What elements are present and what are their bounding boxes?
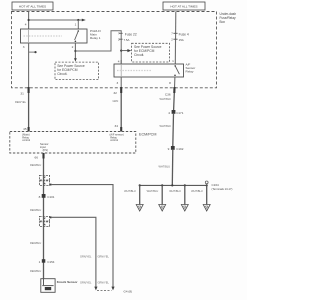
svg-text:8: 8 (39, 195, 41, 199)
svg-text:WHT/BLU: WHT/BLU (159, 165, 171, 169)
svg-text:(Terminals 13-17): (Terminals 13-17) (212, 187, 233, 191)
wire: shield 2 branch to right drop (51, 217, 96, 287)
wire: cavity 31 to ECM pin 45 (28, 93, 30, 132)
relay coil lead (left interior) (28, 29, 30, 43)
junction on pin 2 wire (74, 50, 76, 52)
drop 2 with continuation arrow (161, 185, 163, 204)
svg-text:GRN/YEL: GRN/YEL (98, 254, 110, 258)
connector C101 (42, 194, 46, 198)
svg-text:1: 1 (172, 59, 174, 63)
connector C164 marker (205, 181, 208, 184)
svg-text:GRN/YEL: GRN/YEL (80, 254, 92, 258)
svg-text:C154: C154 (47, 260, 55, 264)
svg-text:3: 3 (23, 45, 25, 49)
svg-text:3: 3 (116, 81, 118, 85)
relay U2: A/F sensor relay box (114, 64, 184, 77)
svg-text:RED/YEL: RED/YEL (15, 100, 27, 104)
svg-text:Relay 1: Relay 1 (90, 36, 101, 40)
relay switch contact bottom (75, 41, 77, 43)
svg-text:WHT/BLU: WHT/BLU (147, 189, 159, 193)
shield drain arrowheads to ground joint (94, 287, 97, 291)
svg-text:Box: Box (220, 20, 226, 24)
svg-text:31: 31 (20, 91, 24, 95)
svg-text:9: 9 (168, 147, 170, 151)
fuse F4 ticks (173, 32, 177, 34)
svg-text:WHT/BLU: WHT/BLU (191, 189, 203, 193)
svg-text:32: 32 (113, 91, 117, 95)
svg-text:WHT/BLU: WHT/BLU (169, 189, 181, 193)
under-dash fuse/relay box dashed enclosure (12, 12, 217, 88)
wire: A/F switch pin8 down (174, 77, 176, 88)
dashed joint line (97, 289, 112, 291)
svg-text:34: 34 (115, 124, 119, 128)
shield connector pair 1 (39, 175, 51, 185)
wire: cavity 32 to ECM pin 34 (120, 93, 122, 132)
svg-text:C192: C192 (176, 147, 184, 151)
svg-text:Fuse 22: Fuse 22 (125, 33, 137, 37)
svg-text:WHT/BLK: WHT/BLK (160, 97, 172, 101)
under-dash fuse/relay box name (220, 12, 237, 24)
wire: fuse22 leg into pin 4 (120, 60, 122, 64)
note box 1: see power source (55, 62, 99, 80)
node: junction dot pin 1 drop (77, 19, 79, 21)
continuation arrow at bus end (82, 19, 86, 22)
svg-text:15A: 15A (179, 38, 184, 42)
svg-text:66: 66 (35, 155, 39, 159)
relay coil (faint) (24, 35, 63, 37)
svg-text:GRN/YEL: GRN/YEL (98, 280, 110, 284)
svg-text:Circuit.: Circuit. (57, 72, 67, 76)
svg-text:RED/BLU: RED/BLU (30, 163, 41, 167)
ECM pin function middle: sensor input KS (40, 142, 49, 152)
A/F relay switch blade (175, 66, 179, 74)
svg-text:1: 1 (75, 23, 77, 27)
svg-text:(KS): (KS) (43, 148, 48, 152)
svg-text:4: 4 (118, 60, 120, 64)
svg-text:GRN: GRN (113, 99, 119, 103)
ECM/PCM dashed box (10, 132, 136, 154)
wire: pin 1 drop (77, 20, 79, 29)
splice bus to C164 (140, 184, 207, 186)
wire: top bus from pin 4 to continuation arrow (29, 19, 83, 21)
connector C171 (172, 110, 176, 114)
stub branch with dot on pin3 wire (29, 51, 36, 53)
svg-text:RED/BLU: RED/BLU (30, 269, 41, 273)
svg-text:Relay: Relay (186, 70, 194, 74)
wire: branch pin2 to fuse22 jog (75, 31, 121, 64)
A/F relay switch contact (174, 65, 176, 67)
drop 3 with continuation arrow (184, 185, 186, 204)
svg-text:4: 4 (25, 23, 27, 27)
svg-text:45: 45 (23, 127, 27, 131)
svg-text:Knock Sensor: Knock Sensor (57, 280, 79, 284)
junction at bus left (28, 19, 30, 21)
hot at all times label (left) (12, 2, 53, 10)
arrow into see-power-source box 1 (74, 58, 77, 61)
fuse F22 ticks (119, 32, 123, 34)
junction dots on bus (139, 184, 141, 186)
connector C154 (42, 259, 46, 263)
note box 2: see power source (132, 43, 170, 62)
relay switch blade (75, 31, 79, 40)
hot at all times label (right) (163, 2, 205, 10)
svg-text:WHT/BLU: WHT/BLU (124, 189, 136, 193)
connector terminal thick segment mid (cavity 32) (120, 87, 122, 93)
A/F relay coil (faint) (117, 70, 152, 72)
svg-text:RED/BLU: RED/BLU (30, 208, 41, 212)
drop 1 with continuation arrow (139, 185, 141, 204)
A/F relay coil lead (120, 64, 122, 77)
relay switch contact top (78, 30, 80, 32)
svg-text:HOT AT ALL TIMES: HOT AT ALL TIMES (19, 4, 46, 8)
terminal at ECM pin45 (28, 127, 30, 132)
svg-text:GRN/YEL: GRN/YEL (80, 280, 92, 284)
wire: feed drop from top border to fuse 4 (174, 12, 177, 65)
svg-text:4: 4 (168, 111, 170, 115)
relay name label (90, 29, 101, 40)
svg-text:HOT AT ALL TIMES: HOT AT ALL TIMES (170, 4, 197, 8)
shield connector pair 2 (39, 216, 51, 226)
drop 4 with continuation arrow (206, 185, 208, 204)
svg-text:C171: C171 (176, 111, 184, 115)
svg-text:Circuit.: Circuit. (134, 53, 144, 57)
wire: shield 1 branch to right drop (51, 185, 113, 287)
A/F relay name label (186, 62, 196, 73)
wire: down to C171 (173, 93, 176, 110)
wire: C192 down to splice bus (171, 150, 174, 186)
wire: pin 3 down to cavity 31 (28, 43, 30, 88)
wire: C171 to C192 (172, 114, 175, 146)
arrow into see-power-source box 2 (121, 50, 127, 52)
svg-text:8: 8 (169, 81, 171, 85)
svg-text:G4 (8): G4 (8) (124, 290, 133, 294)
wire: pin 2 down (74, 43, 76, 59)
ECM pin function right: A/F sensor relay control (110, 133, 124, 143)
wire: feed drop from top border to bus (left) (28, 12, 30, 30)
svg-text:2: 2 (72, 45, 74, 49)
svg-text:WHT/BLK: WHT/BLK (160, 124, 172, 128)
relay U1: PGM-FI main relay 1 box (21, 29, 88, 43)
svg-text:control: control (110, 138, 118, 142)
connector C192 (171, 146, 175, 150)
knock sensor (41, 279, 55, 293)
svg-text:7.5A: 7.5A (124, 38, 130, 42)
terminal at ECM pin34 (120, 127, 122, 132)
svg-text:1: 1 (39, 260, 41, 264)
svg-text:Fuse 4: Fuse 4 (179, 33, 189, 37)
svg-text:ECM/PCM: ECM/PCM (139, 133, 156, 137)
ECM pin function left: PGM-FI relay control (22, 133, 30, 143)
connector terminal thick segment right (cavity C36) (173, 87, 175, 93)
A/F relay switch bottom contact (174, 75, 176, 77)
connector terminal thick segment left (cavity 31) (28, 87, 30, 93)
junction on fuse22 leg (120, 50, 122, 52)
wire: A/F coil pin3 down (120, 77, 122, 88)
svg-text:RED/BLU: RED/BLU (30, 241, 41, 245)
wire: ECM pin 66 down to knock sensor (43, 159, 45, 279)
svg-text:C101: C101 (47, 195, 55, 199)
svg-text:control: control (22, 138, 30, 142)
svg-text:C164: C164 (212, 183, 220, 187)
svg-text:C36: C36 (165, 92, 171, 96)
